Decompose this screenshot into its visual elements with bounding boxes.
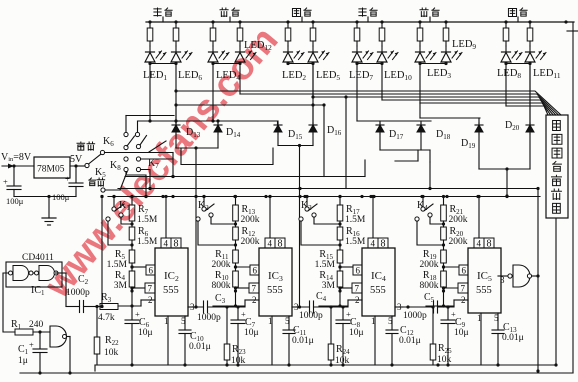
svg-text:6: 6 <box>462 266 467 276</box>
resistor R24 10k <box>330 307 332 344</box>
svg-text:LED8: LED8 <box>497 68 521 80</box>
pin 1 5 <box>480 313 482 365</box>
svg-text:LED1: LED1 <box>143 70 167 82</box>
diode D14 <box>217 121 219 125</box>
gate NAND b <box>39 266 55 281</box>
resistor (LED1 series) <box>148 20 151 23</box>
wire gnd link <box>14 196 76 198</box>
wire R3 to pin2 <box>101 197 103 307</box>
svg-text:LED3: LED3 <box>427 68 451 80</box>
diode D13 <box>175 105 177 125</box>
wire relay drop <box>555 218 557 365</box>
wire K contacts <box>314 217 340 224</box>
watermark red www.elecfans.com <box>36 19 286 306</box>
capacitor C 100u input <box>13 166 15 185</box>
svg-text:555: 555 <box>476 285 492 296</box>
resistor (LED5 series) <box>311 20 314 23</box>
switch bank contacts <box>124 132 128 136</box>
capacitor C1 1u <box>39 332 41 348</box>
wire gate links <box>29 272 35 274</box>
wire resistor chain <box>339 197 341 206</box>
switch K5 manual <box>85 163 89 167</box>
pin 7 <box>352 283 362 293</box>
svg-text:Vin=8V: Vin=8V <box>1 152 32 163</box>
capacitor C7 10u <box>237 307 239 320</box>
LED LED8 <box>505 46 507 52</box>
capacitor C6 10u <box>131 307 133 320</box>
LED LED3 <box>419 46 421 52</box>
svg-text:7: 7 <box>148 284 153 294</box>
wire K contacts <box>121 217 132 224</box>
resistor R19 200k <box>441 250 447 263</box>
LED LED5 <box>312 46 314 52</box>
resistor R17 1.5M <box>337 205 343 221</box>
pin 4 8 <box>265 238 275 248</box>
wire right edge <box>572 22 574 373</box>
LED LED4 <box>212 46 214 52</box>
svg-text:1.5M: 1.5M <box>345 215 366 225</box>
svg-text:1: 1 <box>164 316 169 326</box>
resistor R15 1.5M <box>337 250 343 263</box>
relay box 六块固态继电器 <box>546 115 568 218</box>
svg-text:1.5M: 1.5M <box>137 215 158 225</box>
pin 7 <box>458 283 468 293</box>
label yellow 黄色 <box>292 8 300 16</box>
capacitor C12 0.01u <box>391 322 393 330</box>
pin 4 8 <box>368 238 378 248</box>
svg-text:LED6: LED6 <box>178 70 202 82</box>
svg-text:1: 1 <box>371 316 376 326</box>
diode D15 <box>277 121 279 125</box>
wire bottom rail inner <box>95 364 556 366</box>
LED LED10 <box>381 46 383 52</box>
resistor (LED11 series) <box>528 20 531 23</box>
wire diode top link left <box>138 121 278 125</box>
resistor R10 800k <box>233 271 239 287</box>
svg-text:1: 1 <box>268 316 273 326</box>
wire 5V out <box>70 165 88 167</box>
label red 红色 <box>420 8 428 17</box>
svg-text:555: 555 <box>370 285 386 296</box>
svg-text:+: + <box>29 340 34 350</box>
op-amp timer 5 555 <box>468 248 501 313</box>
svg-text:800k: 800k <box>420 281 439 291</box>
pin 1 5 <box>167 316 169 365</box>
resistor (LED7 series) <box>355 20 358 23</box>
resistor R18 800k <box>441 271 447 287</box>
svg-text:10k: 10k <box>104 348 119 358</box>
op-amp timer 4 555 <box>362 248 395 316</box>
capacitor C9 10u <box>447 307 449 320</box>
wire switch outputs <box>172 153 174 177</box>
svg-text:1.5M: 1.5M <box>315 260 336 270</box>
svg-text:555: 555 <box>267 285 283 296</box>
svg-text:4: 4 <box>268 239 273 249</box>
label yellow 黄色 <box>508 8 516 16</box>
resistor R6 1.5M <box>129 227 135 240</box>
wire LED drops to diode links <box>149 64 151 122</box>
resistor R16 1.5M <box>337 227 343 240</box>
svg-text:LED10: LED10 <box>384 70 412 82</box>
svg-text:3M: 3M <box>322 281 336 291</box>
LED LED12 <box>239 46 241 52</box>
svg-text:7: 7 <box>252 284 257 294</box>
wire diode bottoms routing <box>175 134 177 148</box>
wire bank top feeds <box>125 116 127 133</box>
wire resistor chain <box>235 197 237 206</box>
gate IC1 CD4011 box <box>6 262 62 287</box>
svg-text:4: 4 <box>477 239 482 249</box>
resistor (LED10 series) <box>380 20 383 23</box>
svg-text:555: 555 <box>163 285 179 296</box>
wire riser x346 <box>345 97 347 189</box>
svg-text:200k: 200k <box>449 237 468 247</box>
svg-text:1.5M: 1.5M <box>137 237 158 247</box>
svg-text:4: 4 <box>371 239 376 249</box>
diode D19 <box>478 118 480 125</box>
pin 7 <box>145 283 155 293</box>
wire top supply bus <box>146 21 574 23</box>
regulator 78M05 U-reg <box>34 157 70 178</box>
svg-text:4.7k: 4.7k <box>98 313 115 323</box>
wire G3 drop continues to D16 <box>312 64 314 126</box>
diode D18 <box>420 121 422 125</box>
wire rail A y177 <box>125 176 365 178</box>
wire rail B y188.5 <box>118 188 538 190</box>
pin 6 <box>353 265 362 275</box>
capacitor C8 10u <box>342 307 344 320</box>
resistor R23 10k <box>226 307 228 344</box>
capacitor C13 0.01u <box>497 319 499 330</box>
svg-text:LED4: LED4 <box>216 70 240 82</box>
wire mid routing verticals <box>429 162 431 189</box>
pin 6 <box>146 265 155 275</box>
svg-text:78M05: 78M05 <box>37 165 65 175</box>
svg-text:8: 8 <box>487 239 492 250</box>
resistor R21 200k <box>441 205 447 221</box>
capacitor C10 0.01u <box>184 322 186 330</box>
resistor (LED4 series) <box>211 20 214 23</box>
svg-text:6: 6 <box>149 266 154 276</box>
LED LED7 <box>356 46 358 52</box>
wire pin2 node block3 <box>339 291 341 306</box>
resistor (LED12 series) <box>238 20 241 23</box>
pin 1 5 <box>374 316 376 365</box>
wire bundle lines to relay <box>176 91 561 115</box>
wire resistor chain <box>443 197 445 206</box>
svg-text:0.01μ: 0.01μ <box>502 333 524 343</box>
wire G6 drop to D20 <box>529 64 531 126</box>
resistor R5 1.5M <box>129 250 135 263</box>
pin 6 <box>459 265 468 275</box>
resistor (LED9 series) <box>444 20 447 23</box>
svg-text:6: 6 <box>356 266 361 276</box>
svg-text:3M: 3M <box>114 281 128 291</box>
svg-text:LED9: LED9 <box>452 39 476 51</box>
svg-text:4: 4 <box>164 239 169 249</box>
svg-text:10μ: 10μ <box>138 328 153 338</box>
svg-text:LED5: LED5 <box>316 70 340 82</box>
wire mid band y164.5 <box>181 148 273 165</box>
gate NAND a <box>13 266 29 281</box>
wire G5 drop continues <box>419 103 421 118</box>
wire pin2 node block2 <box>235 291 237 306</box>
svg-text:7: 7 <box>355 284 360 294</box>
svg-text:+: + <box>65 174 70 184</box>
resistor R12 200k <box>233 227 239 240</box>
pin 4 8 <box>474 238 484 248</box>
svg-text:0.01μ: 0.01μ <box>189 342 211 352</box>
gate inverter <box>50 326 67 347</box>
svg-text:1: 1 <box>477 313 482 323</box>
wire LED drops to bundle <box>175 64 177 92</box>
LED LED2 <box>287 46 289 52</box>
wire hline y105 <box>176 104 324 106</box>
svg-text:200k: 200k <box>449 215 468 225</box>
wire bottom rail outer <box>20 372 573 374</box>
diode D17 <box>379 121 381 125</box>
resistor R20 200k <box>441 227 447 240</box>
svg-text:CD4011: CD4011 <box>22 253 54 263</box>
op-amp timer 2 555 <box>155 248 188 316</box>
op-amp timer 3 555 <box>259 248 292 316</box>
svg-text:1000p: 1000p <box>197 313 221 323</box>
resistor (LED2 series) <box>286 20 289 23</box>
svg-text:LED11: LED11 <box>533 68 561 80</box>
svg-text:200k: 200k <box>420 260 439 270</box>
svg-text:7: 7 <box>461 284 466 294</box>
resistor R4 3M <box>129 271 135 287</box>
switch levers <box>127 136 135 146</box>
wire manual feed <box>105 152 174 154</box>
capacitor C 100u output <box>75 166 77 182</box>
label green 绿色 <box>154 8 161 16</box>
resistor R11 200k <box>233 250 239 263</box>
svg-text:10μ: 10μ <box>454 328 469 338</box>
svg-text:8: 8 <box>278 239 283 250</box>
svg-text:LED2: LED2 <box>282 70 306 82</box>
wire G1 drop continues to D13 <box>175 91 177 125</box>
svg-text:0.01μ: 0.01μ <box>292 336 314 346</box>
diode D20 <box>529 64 531 125</box>
label 手动 manual <box>77 142 85 150</box>
resistor R7 1.5M <box>129 205 135 221</box>
svg-text:10μ: 10μ <box>349 328 364 338</box>
svg-text:5V: 5V <box>70 154 83 165</box>
pin 7 <box>249 283 259 293</box>
wire pin2 node block4 <box>443 291 445 306</box>
wire resistor chain <box>131 197 133 206</box>
resistor (LED6 series) <box>174 20 177 23</box>
resistor R22 10k <box>96 307 98 338</box>
pin 4 8 <box>161 238 171 248</box>
svg-text:200k: 200k <box>212 260 231 270</box>
wire diode pair links right <box>357 120 431 122</box>
svg-text:800k: 800k <box>212 281 231 291</box>
label 自动 auto <box>89 178 96 186</box>
resistor (LED8 series) <box>504 20 507 23</box>
svg-text:+: + <box>3 177 8 187</box>
resistor R13 200k <box>233 205 239 221</box>
capacitor C11 0.01u <box>288 322 290 330</box>
pin 1 5 <box>271 316 273 365</box>
svg-text:8: 8 <box>381 239 386 250</box>
wire pin2 node block1 <box>131 291 133 306</box>
svg-text:6: 6 <box>253 266 258 276</box>
wire K contacts <box>211 217 236 224</box>
wire feedback left <box>3 273 15 332</box>
wire input <box>2 165 34 167</box>
svg-text:10k: 10k <box>437 355 452 365</box>
wire riser x324 <box>323 105 325 177</box>
diode D16 <box>312 105 314 125</box>
resistor R14 3M <box>337 271 343 287</box>
wire 5V rail y196.5 <box>108 196 540 198</box>
svg-text:200k: 200k <box>241 237 260 247</box>
wire D19 D20 bottoms <box>478 134 480 169</box>
svg-text:10μ: 10μ <box>244 328 259 338</box>
svg-text:0.01μ: 0.01μ <box>399 336 421 346</box>
LED LED9 <box>445 46 447 52</box>
label red 红色 <box>220 8 228 17</box>
svg-text:1.5M: 1.5M <box>107 260 128 270</box>
svg-text:1000p: 1000p <box>299 311 323 321</box>
svg-text:1μ: 1μ <box>18 356 28 366</box>
wire K contacts <box>430 217 444 224</box>
label green 绿色 <box>359 8 366 16</box>
wire LED cathode joins <box>150 63 176 65</box>
svg-text:1000p: 1000p <box>403 311 427 321</box>
switch auto contact <box>101 188 105 192</box>
wire output risers <box>195 148 197 307</box>
pin 6 <box>250 265 259 275</box>
svg-text:LED7: LED7 <box>349 70 373 82</box>
wire D15 D16 bottoms <box>277 134 279 146</box>
ground <box>48 197 50 219</box>
LED LED11 <box>529 46 531 52</box>
wire D17 D18 bottoms <box>379 134 381 150</box>
LED LED1 <box>149 46 151 52</box>
svg-text:LED12: LED12 <box>244 40 272 52</box>
wire left drop from rail <box>94 365 96 371</box>
wire buffer drop <box>537 189 539 372</box>
svg-text:200k: 200k <box>241 215 260 225</box>
LED LED6 <box>175 46 177 52</box>
svg-text:8: 8 <box>174 239 179 250</box>
svg-text:1000p: 1000p <box>66 288 90 298</box>
svg-text:100μ: 100μ <box>6 196 24 206</box>
resistor R25 10k <box>432 307 434 344</box>
resistor (LED3 series) <box>418 20 421 23</box>
svg-text:1.5M: 1.5M <box>345 237 366 247</box>
